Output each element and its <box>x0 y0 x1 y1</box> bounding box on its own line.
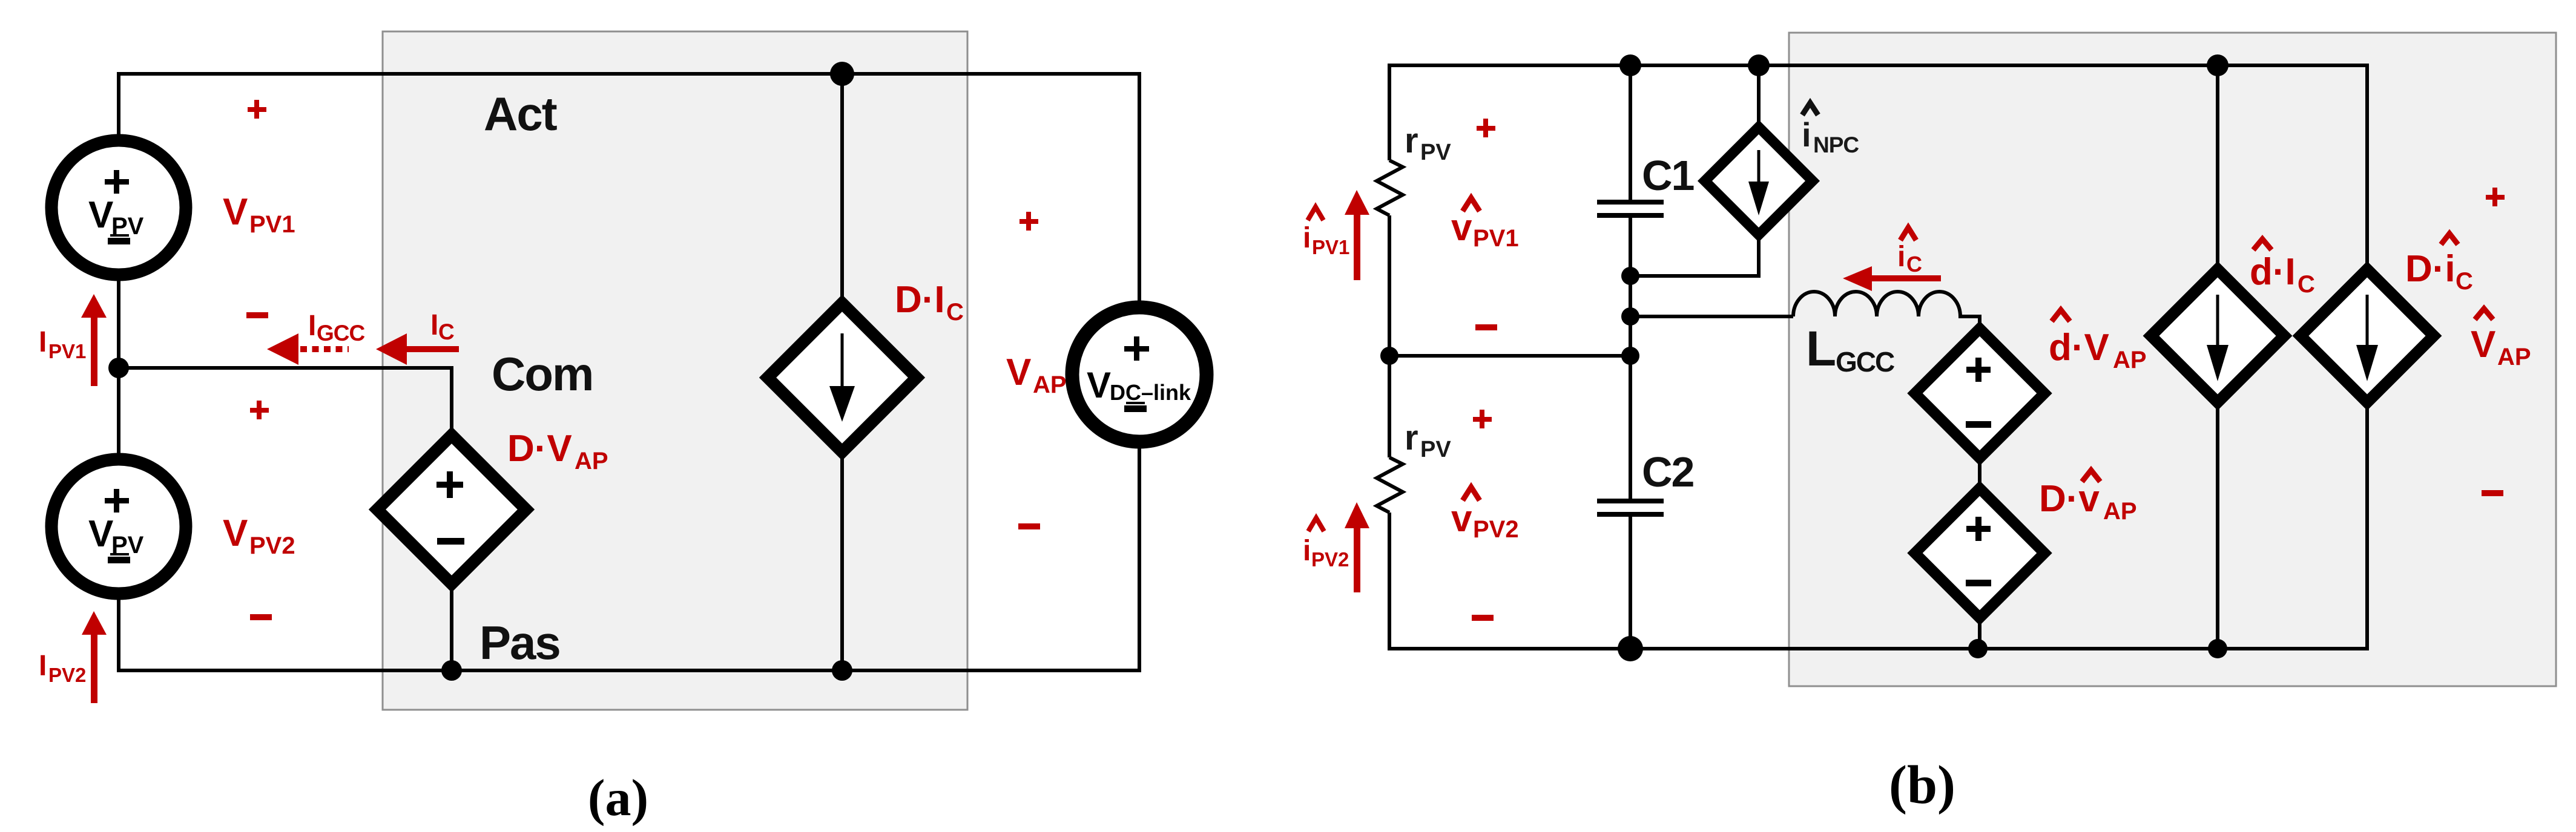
wire iNPC stub upper <box>1757 65 1761 128</box>
resistor rPV1 <box>1377 160 1403 215</box>
svg-text:AP: AP <box>2103 498 2137 525</box>
svg-text:PV1: PV1 <box>1473 225 1519 252</box>
svg-text:PV2: PV2 <box>1473 516 1519 543</box>
wire bottom rail A <box>119 447 1139 670</box>
svg-text:C: C <box>2298 271 2315 298</box>
wire mid horizontal to VCVS <box>119 368 452 436</box>
wire inductor rail <box>1630 315 1793 318</box>
label VAPb hat <box>2475 309 2493 319</box>
svg-text:AP: AP <box>2113 347 2147 373</box>
node B bottom d-Ic <box>2208 639 2227 658</box>
dependent source D-ic (diamond current source b) <box>2301 269 2434 402</box>
minus VAPb <box>2482 490 2503 496</box>
minus vPV1 <box>1475 324 1497 330</box>
label D-vAP hat <box>2082 470 2100 482</box>
minus VAP <box>1018 523 1040 529</box>
node A bottom (D-Ic) <box>832 660 852 681</box>
svg-text:D·I: D·I <box>895 279 945 321</box>
minus vPV2 <box>1472 615 1494 621</box>
inductor LGCC <box>1793 292 1980 330</box>
wire top rail B <box>1389 65 2367 269</box>
converter box B <box>1789 33 2556 686</box>
wire D-Ic branch lower <box>840 451 844 670</box>
wire C2 branch upper <box>1629 356 1632 500</box>
svg-text:PV1: PV1 <box>48 340 86 362</box>
svg-text:I: I <box>308 310 316 342</box>
svg-text:V: V <box>88 513 113 555</box>
svg-text:i: i <box>1897 241 1905 273</box>
dependent source iNPC (diamond current source) <box>1705 127 1813 235</box>
svg-text:C1: C1 <box>1642 152 1694 199</box>
svg-text:V: V <box>2471 324 2495 365</box>
svg-text:i: i <box>1303 222 1311 254</box>
plus vPV1 <box>1477 126 1495 131</box>
svg-text:d·V: d·V <box>2049 327 2109 369</box>
svg-text:DC–link: DC–link <box>1110 380 1191 405</box>
svg-text:r: r <box>1405 418 1418 457</box>
svg-text:V: V <box>223 513 248 554</box>
svg-text:V: V <box>88 194 113 236</box>
svg-text:GCC: GCC <box>317 321 365 346</box>
svg-text:I: I <box>39 326 47 358</box>
dependent source d-Ic (diamond current source b) <box>2151 269 2284 402</box>
label iPV2hat <box>1308 518 1324 531</box>
svg-text:I: I <box>430 309 438 341</box>
wire left B middle <box>1388 215 1391 457</box>
wire mid rail B <box>1389 354 1630 358</box>
arrow iPV1 <box>1354 212 1360 280</box>
wire C1 branch lower <box>1629 218 1632 356</box>
svg-text:v: v <box>1451 207 1472 249</box>
node B mid-left <box>1380 347 1398 365</box>
svg-text:GCC: GCC <box>1836 346 1894 378</box>
plus VPV2 <box>250 408 269 413</box>
svg-text:L: L <box>1806 321 1836 376</box>
voltage source VDC-link <box>1072 307 1207 442</box>
svg-text:(a): (a) <box>588 768 648 827</box>
wire VCVS b2 bottom stub <box>1978 617 1981 649</box>
svg-text:i: i <box>1802 116 1811 154</box>
svg-text:NPC: NPC <box>1813 133 1859 157</box>
wire VCVS b link <box>1978 457 1981 490</box>
arrow Ic <box>404 346 459 352</box>
node B C1-inductor <box>1621 307 1639 326</box>
label D-ic hat <box>2441 234 2458 244</box>
svg-text:d·I: d·I <box>2250 251 2296 293</box>
plus vPV2 <box>1473 417 1492 422</box>
plus VAPb <box>2486 195 2505 200</box>
arrow IPV1 <box>91 315 97 386</box>
minus VPV1 <box>246 312 268 318</box>
svg-text:D·i: D·i <box>2405 248 2456 290</box>
label iNPC <box>1802 103 1859 157</box>
svg-text:PV: PV <box>1420 437 1451 462</box>
svg-text:(b): (b) <box>1889 755 1955 815</box>
svg-text:AP: AP <box>1033 372 1067 398</box>
wire d-Ic branch lower <box>2216 402 2219 649</box>
svg-text:V: V <box>1006 352 1031 393</box>
svg-text:V: V <box>1087 365 1111 405</box>
svg-text:r: r <box>1405 121 1418 160</box>
svg-text:PV: PV <box>1420 140 1451 165</box>
node B C1-iNPC <box>1621 267 1639 285</box>
node B bottom C2 <box>1618 636 1643 661</box>
svg-text:C: C <box>946 299 964 326</box>
dependent source d-VAP (VCVS diamond b1) <box>1915 329 2044 458</box>
svg-text:PV2: PV2 <box>1311 548 1349 571</box>
converter box A <box>383 31 967 710</box>
wire C2 branch lower <box>1629 517 1632 649</box>
svg-text:C: C <box>1906 252 1922 277</box>
svg-text:I: I <box>39 650 47 682</box>
svg-text:PV1: PV1 <box>249 211 295 238</box>
label d-Ic hat <box>2253 239 2271 250</box>
svg-text:Com: Com <box>492 347 593 401</box>
svg-text:v: v <box>1451 498 1472 540</box>
svg-text:C: C <box>438 319 455 344</box>
svg-text:D·v: D·v <box>2039 478 2100 520</box>
arrow ic <box>1867 275 1941 281</box>
svg-text:D·V: D·V <box>507 428 572 470</box>
svg-text:PV1: PV1 <box>1312 236 1349 258</box>
dependent source D-Ic (diamond current source) <box>768 303 917 452</box>
dependent source D-VAP (VCVS diamond) <box>377 435 526 584</box>
svg-text:V: V <box>223 191 248 233</box>
wire d-Ic branch upper <box>2216 65 2219 269</box>
svg-text:AP: AP <box>2497 344 2531 370</box>
wire VCVS bottom stub <box>450 583 453 670</box>
plus VPV1 <box>248 107 266 112</box>
arrow iPV2 <box>1354 526 1360 592</box>
node A mid-left <box>108 358 129 378</box>
svg-text:PV2: PV2 <box>48 664 86 686</box>
svg-text:i: i <box>1303 535 1311 567</box>
svg-text:C: C <box>2456 268 2473 295</box>
capacitor C1 <box>1597 200 1664 205</box>
node B C1-midrail <box>1621 347 1639 365</box>
wire left A between sources <box>117 280 120 454</box>
node B bottom VCVS <box>1968 639 1988 658</box>
node B top d-Ic <box>2207 54 2228 76</box>
wire D-Ic branch upper <box>840 74 844 304</box>
wire C1 branch upper <box>1629 65 1632 201</box>
voltage source VPV1 <box>51 140 186 275</box>
svg-text:Act: Act <box>484 87 558 140</box>
minus VPV2 <box>250 614 272 620</box>
node A top (D-Ic) <box>830 62 854 86</box>
svg-text:PV2: PV2 <box>249 532 295 559</box>
wire bottom rail B <box>1389 404 2367 649</box>
wire top rail A <box>119 74 1139 303</box>
node A bottom (VCVS) <box>441 660 462 681</box>
label iPV1hat <box>1308 207 1323 220</box>
arrow IPV2 <box>91 634 97 703</box>
label vPV1hat <box>1463 198 1480 211</box>
voltage source VPV2 <box>51 459 186 594</box>
resistor rPV2 <box>1377 457 1403 513</box>
plus VAP <box>1020 219 1038 224</box>
label ichat <box>1900 228 1916 240</box>
node B top iNPC <box>1748 54 1770 76</box>
node B top C1 <box>1619 54 1641 76</box>
arrow IGCC dashed <box>300 346 349 352</box>
svg-text:Pas: Pas <box>479 616 560 669</box>
label vPV2hat <box>1463 487 1480 500</box>
wire iNPC stub lower <box>1630 234 1759 276</box>
svg-text:C2: C2 <box>1642 448 1694 496</box>
svg-text:AP: AP <box>575 448 608 474</box>
label d-VAP hat <box>2052 310 2070 321</box>
dependent source D-vAP (VCVS diamond b2) <box>1915 488 2044 618</box>
capacitor C2 <box>1597 499 1664 503</box>
